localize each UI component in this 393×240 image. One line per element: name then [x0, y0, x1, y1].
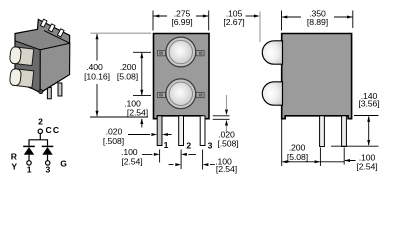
front pin 2 [179, 116, 184, 146]
arrow .100 row1 right [181, 153, 187, 156]
pin 3 terminal circle [46, 161, 50, 165]
dim .200 extension lines (led centers) [133, 52, 151, 95]
svg-text:2: 2 [186, 140, 191, 150]
iso pin 1 [47, 88, 51, 99]
side pin back [342, 116, 347, 147]
arrow .020 pin1 left [151, 133, 157, 136]
dim text .105 [223, 8, 244, 27]
label 1 [27, 164, 32, 174]
svg-text:1: 1 [164, 140, 169, 150]
svg-text:.400: .400 [86, 62, 103, 72]
arrow .105 [254, 15, 260, 18]
dim text .200 side [287, 143, 308, 162]
front pin label 2 [186, 140, 191, 150]
dim .275 extension lines [153, 11, 209, 31]
dim .200 side line [283, 161, 320, 163]
wire cathode bus [29, 140, 48, 146]
wire pin2 stub [39, 134, 41, 140]
svg-text:.200: .200 [120, 62, 137, 72]
svg-text:[6.99]: [6.99] [171, 17, 192, 27]
led D2 cathode bar [42, 145, 54, 147]
svg-text:.020: .020 [106, 127, 123, 137]
dim .400 extension line bottom [90, 116, 148, 118]
arrow .200 side left [282, 160, 288, 163]
arrow .350 left [282, 16, 288, 19]
svg-text:[2.54]: [2.54] [356, 162, 377, 172]
led 2 holder tabs [158, 92, 205, 97]
front body with feet [154, 34, 210, 119]
iso wall slot 3 [58, 29, 65, 37]
arrow .100 row2 left [175, 163, 181, 166]
arrow .100 row1 left [154, 153, 160, 156]
svg-text:Y: Y [11, 162, 17, 172]
arrow .140 bottom [367, 140, 370, 146]
dim .140 line [368, 117, 370, 146]
led D2 triangle [42, 147, 52, 155]
dim .140 ext lines [331, 116, 379, 147]
dim text .100 pins row1 [121, 147, 143, 166]
side pin front [320, 116, 325, 147]
iso wall slot 2 [48, 24, 55, 32]
led 1 front face [166, 37, 196, 67]
svg-text:[2.54]: [2.54] [121, 156, 142, 166]
label R [11, 152, 18, 162]
label CC [46, 125, 61, 135]
dim .350 line [282, 16, 352, 18]
dim .100 row1 lines [142, 153, 196, 155]
label Y [11, 162, 17, 172]
arrow .200 side right [315, 160, 321, 163]
iso pin 2 [58, 83, 62, 96]
dim .275 line [154, 15, 209, 17]
svg-text:R: R [11, 152, 18, 162]
iso body left face (LED face) [15, 41, 40, 93]
iso LED cylinder 1 [9, 46, 34, 65]
svg-text:[2.54]: [2.54] [127, 108, 148, 118]
dim .020 pin1 lines [128, 134, 172, 136]
dim text .020 pin [103, 127, 124, 147]
label 3 [46, 164, 51, 174]
side dome 2 [262, 82, 282, 105]
front pin label 3 [208, 140, 213, 150]
dim .020 foot ext lines [213, 116, 230, 120]
svg-text:3: 3 [46, 164, 51, 174]
label G [60, 158, 67, 168]
iso body right face [40, 43, 70, 92]
pin 2 terminal circle [38, 129, 42, 133]
iso battlement wall base edge [44, 31, 70, 44]
svg-text:[5.08]: [5.08] [117, 72, 138, 82]
dim text .100 front [124, 98, 148, 117]
dim .400 line [96, 34, 98, 116]
svg-text:[10.16]: [10.16] [84, 72, 110, 82]
svg-text:3: 3 [208, 140, 213, 150]
dim .105 extension line (gray) [259, 12, 261, 43]
dim text .100 side [356, 153, 377, 172]
pin 1 terminal circle [27, 161, 31, 165]
arrow .275 right [203, 15, 209, 18]
svg-text:1: 1 [27, 164, 32, 174]
arrow .100 bottom (points up) [140, 118, 143, 124]
dim text .140 [358, 91, 379, 109]
arrow .100 side right [344, 159, 350, 162]
side dome 1 [262, 41, 282, 64]
dim text .350 [307, 8, 328, 27]
svg-text:[3.56]: [3.56] [358, 99, 379, 109]
node pin2 label 2 [38, 117, 43, 127]
dim .100 lower arrow shaft [141, 119, 143, 128]
arrow .020 pin1 right [162, 133, 168, 136]
iso LED cylinder 2 [9, 68, 34, 87]
arrow .400 bottom [96, 111, 99, 117]
front pin 1 [157, 116, 162, 146]
dim text .100 pins row2 [215, 157, 237, 175]
arrow .020 foot up [225, 120, 228, 126]
arrow .100 row2 right [203, 163, 209, 166]
svg-text:[5.08]: [5.08] [287, 152, 308, 162]
dim .020 foot arrow shafts (gray) [226, 95, 228, 132]
dim .105 leader line [246, 15, 257, 17]
wire D2 to pin3 [47, 155, 49, 161]
svg-text:2: 2 [38, 117, 43, 127]
iso wall slot 1 [40, 19, 47, 27]
led 1 holder tabs [158, 51, 205, 56]
dim text .200 front [117, 62, 138, 82]
dim .100 row2 lines [169, 164, 215, 166]
svg-text:[2.54]: [2.54] [216, 164, 237, 174]
arrow .350 right [347, 16, 353, 19]
svg-text:[8.89]: [8.89] [307, 17, 328, 27]
iso body silhouette with battlement notches [15, 19, 70, 92]
arrow .275 left [154, 15, 160, 18]
dim .200 line [141, 53, 143, 95]
dim .200 side ext lines [282, 120, 321, 167]
iso foot knob [39, 90, 43, 94]
arrow .140 top [367, 116, 370, 122]
wire D1 to pin1 [28, 155, 30, 161]
led 2 front face [166, 79, 196, 109]
side body with feet [282, 34, 352, 119]
front pin label 1 [164, 140, 169, 150]
arrow .200 top [140, 52, 143, 58]
led D1 cathode bar [23, 145, 35, 147]
led D1 triangle [24, 147, 34, 155]
dim text .020 foot [217, 129, 238, 148]
arrow .200 bottom / .100 top [140, 90, 143, 96]
dim text .275 [171, 8, 192, 27]
dim .350 extension lines [282, 11, 353, 31]
front pin 3 [200, 116, 205, 146]
svg-text:[.508]: [.508] [217, 139, 238, 149]
svg-text:[.508]: [.508] [103, 136, 124, 146]
arrow .020 foot down [225, 110, 228, 116]
dim pin ext lines bottom [160, 150, 203, 170]
arrow .400 top [96, 34, 99, 40]
svg-text:[2.67]: [2.67] [223, 17, 244, 27]
dim .100 side ext line [343, 148, 345, 165]
svg-text:G: G [60, 158, 67, 168]
dim .100 side lines [320, 161, 355, 162]
dim .400 extension line top (gray) [91, 32, 152, 34]
dim text .400 [84, 62, 110, 82]
svg-text:CC: CC [46, 125, 61, 135]
